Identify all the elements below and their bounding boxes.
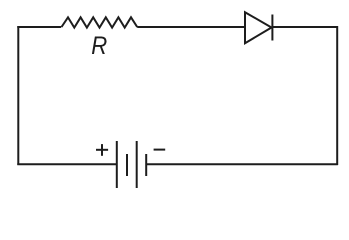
battery positive plate (long) xyxy=(116,141,118,188)
wire top-right segment xyxy=(272,26,337,28)
wire top-middle segment xyxy=(137,26,245,28)
minus sign label xyxy=(154,149,166,151)
resistor R xyxy=(62,17,138,27)
plus sign label xyxy=(96,144,108,156)
wire top-left segment xyxy=(17,26,61,28)
svg-text:R: R xyxy=(91,32,107,60)
diode D1 triangle (anode) xyxy=(245,12,272,43)
battery long plate 2 xyxy=(136,141,138,188)
wire right side xyxy=(336,26,338,165)
battery negative plate (short) xyxy=(145,154,147,176)
diode D1 cathode bar xyxy=(271,15,273,41)
wire left side xyxy=(17,26,19,165)
wire bottom-left segment xyxy=(17,163,117,165)
wire bottom-right segment xyxy=(146,163,338,165)
battery short plate 1 xyxy=(126,154,128,176)
